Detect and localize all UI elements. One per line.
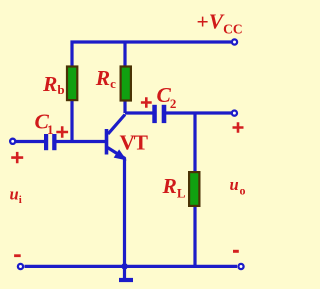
wire C1 to base (through Rb junction) [56,140,105,143]
plus sign output right [233,122,244,133]
terminal bottom left [18,264,23,269]
terminal output (right) [232,111,237,116]
wire emitter down to bottom rail [123,158,126,267]
wire Rc riser from top rail to collector node [123,42,126,113]
wire RL riser from C2 wire to bottom rail [193,113,196,266]
plus sign before C2 [141,97,152,107]
capacitor C2 plates [152,105,166,123]
wire collector node to C2 left plate [125,111,153,114]
minus sign bottom left [14,254,21,257]
resistor Rb body [67,67,77,101]
wire top rail from Rb riser to +Vcc terminal [72,42,231,142]
wire input to C1 [16,140,45,143]
plus sign after C1 [56,126,68,137]
terminal bottom right [238,264,243,269]
resistor Rc body [121,67,131,101]
terminal input (left top) [10,139,15,144]
transistor VT (NPN) [105,115,126,160]
junction dot emitter/bottom rail [121,263,127,269]
plus sign input left [11,152,23,163]
minus sign bottom right [233,250,239,253]
ground [119,266,133,280]
wire C2 right plate to output terminal [165,111,232,114]
terminal +Vcc (top right) [232,39,237,44]
svg-text:VT: VT [120,131,149,155]
resistor RL body [189,172,199,206]
capacitor C1 plates [44,134,57,150]
wire bottom rail [25,265,238,268]
